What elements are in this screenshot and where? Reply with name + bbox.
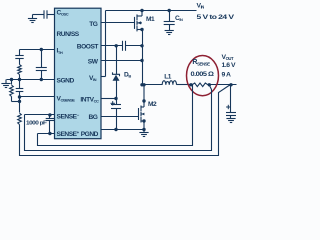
wire SW to inductor L1 <box>143 84 163 86</box>
capacitor CB boost <box>123 41 126 51</box>
capacitor COUT <box>226 113 236 116</box>
wire 1000pF top <box>49 115 51 119</box>
junction SW pin on SW node <box>140 59 143 62</box>
svg-text:5 V to 24 V: 5 V to 24 V <box>197 14 235 21</box>
svg-text:1000 pF: 1000 pF <box>26 121 47 127</box>
wire CITH bottom <box>41 71 43 80</box>
junction M2 source on PGND <box>142 128 145 131</box>
wire DB anode to INTVCC <box>116 81 118 99</box>
wire PGND pin to M2 source ground <box>101 129 145 131</box>
ground COSC <box>32 15 34 19</box>
wire R2 loop to VOUT node <box>20 85 231 156</box>
resistor RSENSE <box>192 83 208 87</box>
wire VIN pin <box>101 76 106 78</box>
wire CITH top <box>41 50 43 68</box>
junction COUT on VOUT rail <box>229 83 232 86</box>
junction M2 drain on SW-inductor wire <box>142 83 145 86</box>
wire capacitor to ground elbow <box>33 14 45 16</box>
capacitor CC <box>15 56 23 59</box>
svg-text:BG: BG <box>89 114 98 121</box>
transistor M2 N-channel MOSFET <box>139 85 145 130</box>
capacitor CITH <box>36 68 47 71</box>
junction M1 source elbow <box>140 28 143 31</box>
junction VOSENSE node lower <box>18 100 21 103</box>
wire VIN rail to CIN <box>169 11 171 22</box>
wire RSENSE to VOUT <box>210 84 237 86</box>
wire SENSE- pin <box>25 114 55 116</box>
wire node to R2 <box>19 102 21 113</box>
capacitor COUT plus sign <box>226 105 230 109</box>
wire INTVCC to CVCC <box>116 99 118 105</box>
svg-text:M1: M1 <box>146 16 155 23</box>
wire ITH pin <box>20 49 55 51</box>
wire boost capacitor to SW node <box>126 45 143 47</box>
ground SGND <box>5 80 7 84</box>
svg-text:CIN: CIN <box>175 15 183 22</box>
svg-text:L1: L1 <box>164 73 172 80</box>
wire SENSE+ pin <box>38 133 55 135</box>
wire BG pin to M2 gate <box>101 116 139 118</box>
capacitor 1000pF plates <box>46 119 54 121</box>
svg-text:VOUT: VOUT <box>222 54 234 61</box>
wire COSC pin to capacitor <box>47 14 55 16</box>
junction CITH on ITH wire <box>40 48 43 51</box>
junction CIN on VIN rail <box>168 9 171 12</box>
wire SW pin to SW node <box>101 60 143 62</box>
junction INTVCC node <box>114 97 117 100</box>
wire VIN top rail <box>106 10 197 12</box>
wire SGND pin <box>7 79 55 81</box>
junction 1000pF on SENSE- <box>48 113 51 116</box>
junction CITH on SGND <box>40 78 43 81</box>
wire VOUT rail to COUT <box>230 85 232 113</box>
junction VOSENSE node upper <box>18 95 21 98</box>
ground symbol CIN <box>165 31 174 35</box>
svg-text:1.6 V: 1.6 V <box>222 62 237 69</box>
diode DB <box>113 72 120 76</box>
svg-text:DB: DB <box>124 72 131 79</box>
wire INTVCC pin <box>101 98 117 100</box>
highlight ellipse around RSENSE <box>187 56 219 96</box>
wire 1000pF bottom <box>49 121 51 134</box>
junction R1 on SGND <box>10 78 13 81</box>
junction M1 drain on VIN rail <box>140 9 143 12</box>
wire CC to RC <box>19 59 21 65</box>
wire SW node M1 source down to inductor <box>142 30 144 85</box>
svg-text:TG: TG <box>89 21 98 28</box>
wire CIN to ground <box>169 25 171 31</box>
capacitor C1 <box>16 89 24 92</box>
wire R1 bottom <box>11 97 13 102</box>
wire ITH elbow down <box>19 50 21 56</box>
junction RSENSE right terminal <box>208 83 211 86</box>
svg-text:PGND: PGND <box>81 131 99 138</box>
wire TG pin to M1 gate <box>101 22 135 24</box>
ground symbol COSC <box>28 19 37 23</box>
wire VOSENSE pin <box>20 96 55 98</box>
junction boost cap on SW node <box>140 44 143 47</box>
wire BOOST pin to boost capacitor <box>101 45 123 47</box>
junction RC and C1 on SGND <box>18 78 21 81</box>
capacitor COSC <box>44 10 47 18</box>
junction M2 source elbow <box>142 119 145 122</box>
capacitor CVCC <box>111 105 121 109</box>
ground symbol SGND <box>1 84 10 88</box>
wire C1 top <box>19 80 21 89</box>
svg-text:SENSE−: SENSE− <box>57 112 80 120</box>
wire C1 bottom to node <box>19 92 21 102</box>
wire COUT to ground <box>230 116 232 119</box>
transistor M1 N-channel MOSFET <box>135 11 143 32</box>
svg-text:VIN: VIN <box>197 3 205 10</box>
resistor RC <box>18 65 22 75</box>
svg-text:SW: SW <box>88 58 99 65</box>
junction SW node to inductor <box>140 83 143 86</box>
ground M2/PGND <box>143 130 145 133</box>
ground symbol COUT <box>226 119 235 123</box>
wire R1 top <box>11 80 13 85</box>
wire SENSE- loop to RSENSE right terminal <box>25 86 212 151</box>
junction CVCC on PGND wire <box>114 128 117 131</box>
svg-text:SENSE+: SENSE+ <box>57 130 80 138</box>
svg-text:SGND: SGND <box>57 78 75 85</box>
resistor R1 <box>10 85 14 97</box>
svg-text:0.005 Ω: 0.005 Ω <box>191 71 215 78</box>
junction 1000pF on SENSE+ <box>48 132 51 135</box>
wire R1 elbow to VOSENSE node <box>12 101 20 103</box>
ground symbol PGND <box>139 133 148 137</box>
wire VIN rail drop to VIN pin <box>105 11 107 77</box>
wire BOOST to DB cathode <box>116 46 118 75</box>
capacitor CIN <box>164 22 175 25</box>
svg-text:M2: M2 <box>148 101 157 108</box>
wire SENSE+ loop to RSENSE left terminal <box>38 85 193 146</box>
junction on M2 drain wire <box>142 99 145 102</box>
svg-text:BOOST: BOOST <box>77 44 99 51</box>
wire CVCC to PGND <box>116 109 118 130</box>
junction DB on BOOST wire <box>115 44 118 47</box>
wire L1 to RSENSE <box>177 84 191 86</box>
capacitor CVCC plus sign <box>111 101 115 105</box>
junction RSENSE left terminal <box>189 83 192 86</box>
svg-text:RUN/SS: RUN/SS <box>57 31 80 38</box>
inductor L1 <box>162 81 176 85</box>
svg-text:9 A: 9 A <box>222 72 232 79</box>
IC U1 LTC controller body <box>55 8 102 139</box>
wire RC to SGND <box>19 75 21 80</box>
svg-text:RSENSE: RSENSE <box>192 59 210 67</box>
